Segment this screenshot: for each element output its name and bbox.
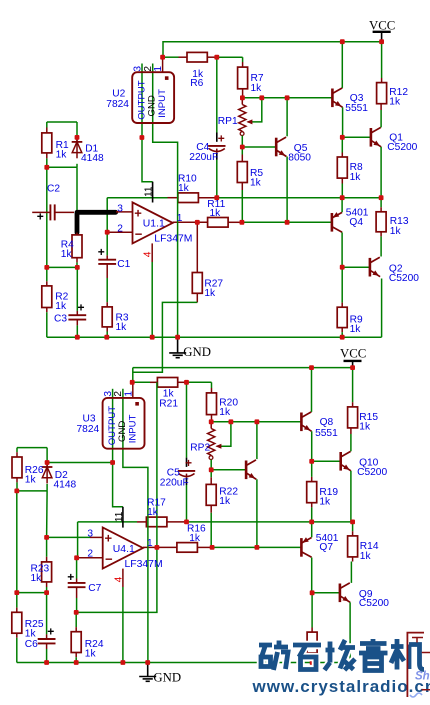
- svg-text:1k: 1k: [204, 288, 216, 299]
- svg-text:C5200: C5200: [387, 142, 417, 153]
- svg-text:1k: 1k: [55, 301, 67, 312]
- svg-text:1: 1: [177, 213, 183, 224]
- svg-text:5551: 5551: [345, 103, 368, 114]
- svg-text:+: +: [47, 624, 54, 638]
- svg-text:R21: R21: [159, 399, 178, 410]
- svg-text:LF347M: LF347M: [125, 559, 163, 570]
- svg-text:1k: 1k: [116, 322, 128, 333]
- svg-text:1k: 1k: [56, 150, 68, 161]
- svg-text:1k: 1k: [389, 97, 401, 108]
- svg-text:C2: C2: [47, 184, 60, 195]
- svg-text:VCC: VCC: [340, 347, 366, 361]
- svg-text:4148: 4148: [81, 153, 104, 164]
- svg-text:1k: 1k: [219, 407, 231, 418]
- svg-text:7824: 7824: [77, 424, 100, 435]
- svg-text:2: 2: [117, 223, 123, 234]
- svg-text:RP2: RP2: [190, 442, 210, 453]
- svg-text:C5200: C5200: [389, 273, 419, 284]
- svg-text:2: 2: [87, 548, 93, 559]
- svg-text:INPUT: INPUT: [157, 89, 168, 118]
- svg-text:C6: C6: [25, 639, 38, 650]
- svg-text:+: +: [185, 456, 192, 470]
- svg-text:5551: 5551: [315, 428, 338, 439]
- svg-text:GND: GND: [147, 95, 158, 116]
- svg-text:U1.1: U1.1: [143, 219, 165, 230]
- svg-text:C7: C7: [88, 583, 101, 594]
- svg-text:11: 11: [144, 186, 155, 197]
- svg-text:1: 1: [153, 66, 164, 72]
- svg-text:+: +: [78, 301, 85, 315]
- svg-text:1k: 1k: [31, 573, 43, 584]
- svg-text:3: 3: [87, 529, 93, 540]
- svg-text:1k: 1k: [359, 421, 371, 432]
- svg-text:1k: 1k: [360, 551, 372, 562]
- svg-text:1k: 1k: [319, 497, 331, 508]
- svg-text:Q4: Q4: [349, 217, 363, 228]
- svg-text:1k: 1k: [25, 475, 37, 486]
- svg-text:1k: 1k: [189, 533, 201, 544]
- svg-text:1k: 1k: [210, 208, 222, 219]
- svg-text:Q7: Q7: [319, 542, 333, 553]
- svg-text:3: 3: [117, 203, 123, 214]
- svg-text:+: +: [98, 245, 105, 259]
- svg-text:1k: 1k: [350, 172, 362, 183]
- svg-text:C5200: C5200: [359, 598, 389, 609]
- svg-text:8050: 8050: [288, 153, 311, 164]
- svg-text:GND: GND: [153, 671, 181, 685]
- svg-text:+: +: [105, 530, 113, 545]
- svg-text:+: +: [134, 205, 142, 220]
- svg-text:LF347M: LF347M: [154, 234, 192, 245]
- svg-text:1k: 1k: [250, 177, 262, 188]
- svg-text:GND: GND: [183, 345, 211, 359]
- svg-text:RP1: RP1: [218, 116, 238, 127]
- svg-text:1k: 1k: [147, 507, 159, 518]
- svg-text:4: 4: [143, 251, 154, 257]
- svg-text:+: +: [37, 209, 44, 223]
- svg-text:Q8: Q8: [320, 417, 334, 428]
- svg-text:C5200: C5200: [357, 467, 387, 478]
- svg-text:1: 1: [147, 538, 153, 549]
- svg-text:+: +: [67, 570, 74, 584]
- svg-text:−: −: [105, 552, 113, 567]
- svg-text:Q3: Q3: [350, 93, 364, 104]
- svg-text:1k: 1k: [85, 648, 97, 659]
- svg-text:C3: C3: [54, 313, 67, 324]
- svg-text:GND: GND: [117, 421, 128, 442]
- svg-text:INPUT: INPUT: [128, 414, 139, 443]
- svg-text:C1: C1: [117, 259, 130, 270]
- svg-text:7824: 7824: [106, 99, 129, 110]
- svg-text:1k: 1k: [251, 83, 263, 94]
- svg-text:R6: R6: [190, 78, 203, 89]
- svg-text:−: −: [135, 227, 143, 242]
- svg-text:4148: 4148: [54, 480, 77, 491]
- svg-text:1k: 1k: [219, 496, 231, 507]
- svg-text:1k: 1k: [350, 324, 362, 335]
- svg-text:220uF: 220uF: [160, 478, 189, 489]
- svg-text:Sh: Sh: [415, 671, 430, 683]
- svg-text:4: 4: [114, 576, 125, 582]
- svg-text:1k: 1k: [61, 249, 73, 260]
- svg-text:U4.1: U4.1: [113, 544, 135, 555]
- svg-text:1k: 1k: [178, 183, 190, 194]
- svg-text:1: 1: [123, 391, 134, 397]
- svg-text:220uF: 220uF: [189, 152, 218, 163]
- svg-text:+: +: [218, 132, 225, 146]
- svg-text:11: 11: [114, 511, 125, 522]
- svg-text:1k: 1k: [390, 226, 402, 237]
- svg-text:www.crystalradio.cn: www.crystalradio.cn: [252, 677, 430, 696]
- svg-text:VCC: VCC: [369, 19, 395, 33]
